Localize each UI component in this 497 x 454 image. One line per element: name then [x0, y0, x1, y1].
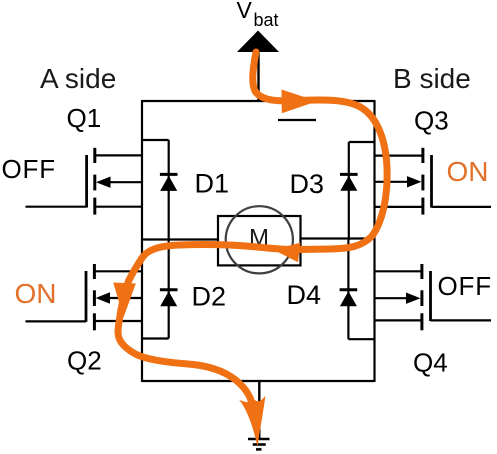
wire: left rail — [141, 100, 143, 382]
current arrowhead 1 (top, pointing right) — [282, 90, 318, 114]
wire: right rail — [373, 100, 375, 382]
diode D1 — [160, 174, 178, 191]
svg-text:Q1: Q1 — [67, 103, 102, 133]
wire: middle rail left (motor lead A) — [142, 238, 218, 240]
svg-text:B side: B side — [393, 63, 471, 94]
svg-text:D3: D3 — [290, 169, 325, 199]
motor M — [218, 206, 301, 273]
current path (orange flow line) — [118, 52, 387, 402]
wire: D2 branch vertical — [168, 240, 170, 339]
svg-text:Q2: Q2 — [67, 346, 102, 376]
wire: D1 branch vertical — [168, 140, 170, 240]
svg-text:A side: A side — [40, 63, 116, 94]
diode D2 — [160, 290, 178, 307]
wire: ground stub — [258, 381, 260, 438]
diode D3 — [340, 174, 358, 190]
wire: D1 top connector — [142, 139, 169, 141]
transistor Q1 — [26, 148, 143, 215]
wire: D4 branch vertical — [347, 240, 349, 339]
Vbat supply arrow symbol — [237, 31, 279, 53]
current arrowhead 3 (Q2 leg, pointing down) — [113, 283, 136, 318]
wire: Vbat stub — [257, 52, 259, 101]
svg-text:D2: D2 — [192, 282, 227, 312]
svg-text:D1: D1 — [195, 169, 230, 199]
svg-text:ON: ON — [447, 156, 489, 187]
svg-text:bat: bat — [254, 10, 279, 30]
current arrowhead 4 (to ground, pointing down) — [239, 396, 266, 448]
transistor Q2 — [26, 264, 143, 330]
svg-text:D4: D4 — [287, 280, 322, 310]
diode D4 — [340, 290, 358, 307]
wire: top rail — [142, 100, 375, 102]
wire: bottom rail — [142, 380, 375, 382]
transistor Q4 — [375, 264, 492, 330]
wire: stray segment under top rail — [278, 119, 316, 121]
node Vbat label — [237, 0, 279, 30]
ground — [248, 439, 270, 449]
wire: D2 bottom connector — [142, 337, 169, 339]
svg-text:V: V — [237, 0, 253, 23]
wire: D3 branch vertical — [348, 142, 350, 240]
svg-text:OFF: OFF — [2, 154, 56, 184]
svg-text:ON: ON — [15, 278, 57, 309]
wire: D4 bottom connector — [348, 338, 374, 340]
transistor Q3 — [375, 148, 492, 215]
svg-text:OFF: OFF — [438, 271, 492, 301]
current arrowhead 2 (motor, pointing left) — [274, 243, 301, 263]
wire: middle rail right (motor lead B) — [301, 237, 375, 239]
wire: D3 top connector — [349, 141, 375, 143]
svg-text:Q3: Q3 — [414, 105, 449, 135]
svg-text:Q4: Q4 — [413, 348, 448, 378]
